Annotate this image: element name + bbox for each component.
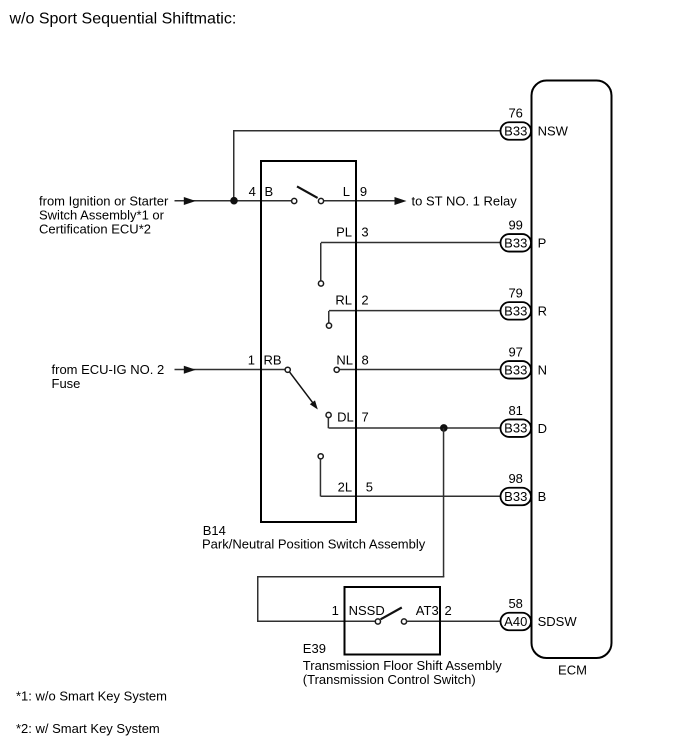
svg-text:76: 76 xyxy=(508,105,522,120)
svg-text:NL: NL xyxy=(336,352,353,367)
svg-text:Park/Neutral Position Switch A: Park/Neutral Position Switch Assembly xyxy=(202,537,426,552)
svg-text:7: 7 xyxy=(362,409,369,424)
svg-text:79: 79 xyxy=(508,285,522,300)
svg-text:NSSD: NSSD xyxy=(349,603,385,618)
svg-text:RB: RB xyxy=(264,352,282,367)
svg-text:ECM: ECM xyxy=(558,663,587,678)
svg-text:4: 4 xyxy=(249,184,256,199)
svg-text:AT3: AT3 xyxy=(416,603,439,618)
svg-text:3: 3 xyxy=(361,225,368,240)
svg-text:P: P xyxy=(538,235,547,250)
svg-text:5: 5 xyxy=(366,479,373,494)
svg-text:81: 81 xyxy=(508,403,522,418)
svg-text:NSW: NSW xyxy=(538,124,569,139)
svg-text:1: 1 xyxy=(332,603,339,618)
svg-text:RL: RL xyxy=(335,292,352,307)
svg-text:(Transmission Control Switch): (Transmission Control Switch) xyxy=(303,672,476,687)
svg-text:E39: E39 xyxy=(303,641,326,656)
svg-text:B33: B33 xyxy=(504,362,527,377)
svg-text:Switch Assembly*1 or: Switch Assembly*1 or xyxy=(39,207,165,222)
svg-text:B33: B33 xyxy=(504,303,527,318)
svg-text:2: 2 xyxy=(361,292,368,307)
svg-text:N: N xyxy=(538,362,547,377)
svg-text:to ST NO. 1 Relay: to ST NO. 1 Relay xyxy=(412,193,518,208)
svg-text:98: 98 xyxy=(508,471,522,486)
svg-text:Transmission Floor Shift Assem: Transmission Floor Shift Assembly xyxy=(303,658,502,673)
svg-text:99: 99 xyxy=(508,217,522,232)
svg-text:PL: PL xyxy=(336,225,352,240)
svg-text:B: B xyxy=(538,489,547,504)
svg-text:A40: A40 xyxy=(504,614,527,629)
svg-text:8: 8 xyxy=(362,352,369,367)
svg-text:B33: B33 xyxy=(504,124,527,139)
svg-text:from ECU-IG NO. 2: from ECU-IG NO. 2 xyxy=(52,362,165,377)
svg-text:*1: w/o Smart Key System: *1: w/o Smart Key System xyxy=(16,689,167,704)
svg-text:B33: B33 xyxy=(504,235,527,250)
svg-text:from Ignition or Starter: from Ignition or Starter xyxy=(39,193,169,208)
svg-text:97: 97 xyxy=(508,344,522,359)
svg-text:1: 1 xyxy=(248,352,255,367)
svg-text:R: R xyxy=(538,304,547,319)
svg-text:Certification ECU*2: Certification ECU*2 xyxy=(39,221,151,236)
svg-text:9: 9 xyxy=(360,184,367,199)
svg-text:58: 58 xyxy=(508,596,522,611)
svg-text:2: 2 xyxy=(445,603,452,618)
svg-text:2L: 2L xyxy=(338,479,352,494)
svg-text:B33: B33 xyxy=(504,489,527,504)
svg-text:w/o Sport Sequential Shiftmati: w/o Sport Sequential Shiftmatic: xyxy=(9,10,237,27)
svg-text:DL: DL xyxy=(337,409,354,424)
svg-text:Fuse: Fuse xyxy=(52,376,81,391)
svg-text:B33: B33 xyxy=(504,421,527,436)
svg-text:B: B xyxy=(265,184,274,199)
svg-text:SDSW: SDSW xyxy=(538,614,578,629)
svg-text:D: D xyxy=(538,421,547,436)
svg-text:L: L xyxy=(343,184,350,199)
svg-text:*2: w/ Smart Key System: *2: w/ Smart Key System xyxy=(16,721,160,736)
